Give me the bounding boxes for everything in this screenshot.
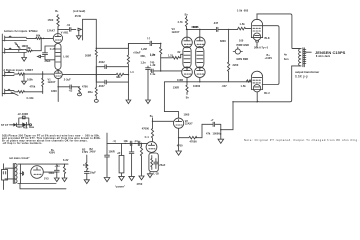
svg-text:30n 6-7y+ 0: 30n 6-7y+ 0 — [254, 46, 269, 49]
component on bracket — [23, 116, 26, 119]
jack J2 — [2, 48, 26, 53]
ground G15 — [84, 180, 89, 184]
resistor 1M diagonal — [15, 43, 20, 48]
wire B+ down to rail — [106, 133, 108, 143]
vertical x128 with resistor R9 — [127, 43, 129, 99]
cathode leads V5 — [256, 40, 259, 47]
plate stubs up — [187, 29, 200, 37]
wire node to tone — [96, 43, 128, 48]
svg-text:5Y3: 5Y3 — [44, 178, 49, 181]
ladder bottom branch cap .0047 — [96, 75, 128, 84]
primary leads — [5, 168, 15, 179]
jack J1 — [2, 36, 26, 41]
svg-text:420V: 420V — [49, 151, 55, 154]
filter cap leg 2 electrolytic — [121, 143, 123, 155]
rectifier tube V7 — [31, 166, 44, 179]
ground stub — [78, 31, 80, 36]
ground G11 — [147, 172, 152, 178]
svg-text:GRN RED: GRN RED — [236, 58, 248, 61]
wire main line y44 — [128, 42, 149, 44]
svg-text:-uF Cap is for valve numbers.: -uF Cap is for valve numbers. — [2, 142, 43, 145]
resistor R16 grid V6 — [247, 80, 252, 82]
resistor R7 — [18, 91, 25, 93]
jack J3 — [2, 71, 14, 76]
svg-text:bottom ch.1 inputs 970kHz: bottom ch.1 inputs 970kHz — [4, 30, 38, 33]
svg-text:1005: 1005 — [184, 113, 190, 116]
svg-text:PWR GND: PWR GND — [237, 44, 250, 47]
tube V2a — [174, 118, 184, 128]
svg-text:10k: 10k — [83, 164, 88, 167]
svg-text:47k 10000u: 47k 10000u — [206, 132, 222, 135]
svg-text:4n: 4n — [284, 53, 287, 56]
svg-text:68k: 68k — [36, 35, 41, 38]
volume pot VR1 — [82, 19, 84, 40]
wire nfb left — [196, 124, 202, 137]
ground G10 — [176, 151, 182, 155]
svg-text:130R: 130R — [173, 86, 179, 89]
AC plug — [2, 170, 8, 181]
resistor R6 — [18, 73, 25, 75]
capacitor C6 .047 — [216, 27, 237, 31]
node junction — [160, 43, 162, 45]
plate lead V2a — [164, 82, 178, 118]
ground G9 — [218, 130, 224, 144]
leader dash to label — [306, 51, 312, 53]
svg-text:745: 745 — [150, 62, 155, 65]
wire R1 to V1 grid — [41, 37, 54, 39]
diode D2 — [22, 122, 26, 127]
svg-text:B+: B+ — [55, 10, 59, 13]
svg-text:4700: 4700 — [82, 85, 88, 88]
resistor R14 grid V5 — [238, 27, 251, 30]
svg-text:100k: 100k — [27, 78, 33, 81]
svg-text:100R: 100R — [177, 79, 183, 82]
svg-text:245V: 245V — [90, 151, 96, 154]
wiper arrow volume pot — [78, 28, 81, 30]
screen supply loop — [262, 26, 279, 85]
ground G12 — [104, 178, 110, 182]
svg-text:C-25: C-25 — [50, 48, 56, 51]
tube V2b body capsule — [151, 151, 153, 154]
junction to lower grid — [228, 29, 229, 30]
svg-text:1-5k: 1-5k — [240, 23, 246, 26]
svg-text:1,25: 1,25 — [168, 55, 174, 58]
svg-text:10uF: 10uF — [90, 172, 96, 175]
plate lead V6 to OT bottom — [233, 66, 292, 102]
svg-text:BLK: BLK — [265, 37, 270, 40]
secondary top lead — [18, 163, 68, 165]
svg-text:-0022: -0022 — [98, 61, 105, 64]
svg-text:10k: 10k — [124, 140, 129, 143]
svg-text:470k: 470k — [30, 85, 36, 88]
svg-text:12AX7: 12AX7 — [172, 31, 180, 34]
wire speaker to NFB — [232, 101, 233, 102]
svg-text:1500: 1500 — [48, 19, 54, 22]
svg-text:-LF-400R: -LF-400R — [17, 113, 28, 116]
svg-text:680R: 680R — [192, 26, 198, 29]
svg-text:10000: 10000 — [193, 85, 201, 88]
junction dot — [160, 70, 162, 72]
svg-text:2-2uF: 2-2uF — [64, 79, 71, 82]
wire plate node to C2 — [58, 28, 69, 30]
svg-text:100: 100 — [239, 40, 244, 43]
tube V2b — [146, 142, 157, 153]
cathode lead V1a — [54, 45, 56, 46]
svg-text:-14: -14 — [134, 140, 138, 143]
tube V1b triode — [54, 70, 62, 78]
svg-text:50V: 50V — [17, 126, 22, 129]
diode D1 — [13, 123, 16, 127]
svg-text:170V: 170V — [82, 151, 88, 154]
secondary bottom — [18, 183, 56, 185]
svg-text:68k: 68k — [116, 76, 121, 79]
cathode resistor inside — [151, 156, 153, 170]
svg-text:(-): (-) — [147, 37, 150, 40]
cap C5 to ground — [146, 66, 151, 100]
wire y57.8 with resistor R12 — [161, 54, 183, 59]
svg-text:8on: 8on — [284, 58, 289, 61]
svg-text:+50uF: +50uF — [133, 51, 141, 54]
svg-text:47000: 47000 — [142, 127, 150, 130]
bypass cap C3 .02 — [58, 85, 79, 89]
svg-text:+410V: +410V — [265, 57, 273, 60]
wire y70.9 with cap — [150, 69, 181, 73]
capacitor C4 .02 — [150, 41, 161, 45]
rail wire — [107, 142, 148, 144]
ground lug — [94, 100, 98, 103]
resistor R2 — [27, 50, 33, 52]
core lamination ticks — [303, 50, 306, 64]
svg-text:C-10k: C-10k — [27, 97, 35, 100]
svg-text:40uF: 40uF — [49, 172, 55, 175]
svg-text:6-3V: 6-3V — [63, 159, 69, 162]
wire R6 to grid — [14, 73, 43, 75]
svg-text:4700: 4700 — [176, 145, 183, 148]
svg-text:B+: B+ — [186, 96, 190, 99]
svg-text:bias: bias — [29, 126, 35, 129]
resistor R8b 4700 — [79, 87, 81, 93]
resistor R13 — [185, 16, 187, 29]
wire plate to OT top — [257, 14, 300, 49]
svg-text:-02: -02 — [69, 89, 73, 92]
resistor R1 68k — [36, 37, 42, 39]
svg-text:1,3n: 1,3n — [141, 61, 147, 64]
svg-text:-047: -047 — [222, 85, 228, 88]
svg-text:B+: B+ — [150, 115, 154, 118]
resistor R10 68k — [96, 73, 128, 76]
ground G16 — [54, 178, 59, 182]
jack J4 — [2, 89, 14, 94]
svg-text:6800: 6800 — [220, 40, 226, 43]
filter leg 3 — [129, 143, 134, 176]
wire pot top to node — [83, 19, 97, 48]
filter cap C9 — [54, 166, 59, 178]
svg-text:200R: 200R — [85, 54, 91, 57]
resistor R18 — [151, 118, 153, 142]
svg-text:L-35: L-35 — [154, 173, 160, 176]
plate lead V5 — [256, 14, 258, 20]
resistor R5 divider chain — [95, 48, 97, 99]
wire rail y29 — [187, 28, 216, 30]
tube V6 — [251, 71, 262, 89]
svg-text:1-5k -005: 1-5k -005 — [237, 9, 249, 12]
svg-text:(coil lead): (coil lead) — [73, 10, 85, 13]
resistor R21 — [63, 165, 65, 178]
chassis ground line — [1, 34, 3, 96]
wire top secondary to cap — [57, 164, 65, 165]
svg-text:68k: 68k — [27, 47, 32, 50]
wire J1 to R1 — [26, 37, 35, 39]
svg-text:40u: 40u — [23, 126, 28, 129]
wire bias — [10, 118, 30, 125]
svg-text:680,: 680, — [141, 55, 146, 58]
resistor R15 130R — [186, 82, 188, 95]
svg-text:-1): -1) — [113, 140, 116, 143]
svg-text:25-W: 25-W — [75, 15, 82, 18]
wire J2 junction — [23, 53, 25, 58]
svg-text:25uF: 25uF — [159, 164, 165, 167]
cathode stubs down — [187, 78, 200, 82]
svg-text:Note: Original PT replaced. Ou: Note: Original PT replaced. Output Tx ch… — [244, 138, 359, 142]
plate stub V1b — [57, 69, 59, 71]
svg-text:ST CT: ST CT — [1, 124, 9, 127]
svg-text:L-5K: L-5K — [63, 56, 69, 59]
tube V1 body capsule — [55, 43, 61, 69]
svg-text:-047: -047 — [213, 22, 219, 25]
filter leg 4 resistor R22 — [140, 143, 142, 175]
cathode bus y81.8 — [164, 81, 246, 83]
cathode wire — [43, 171, 57, 173]
terminal circle — [30, 124, 32, 126]
resistor R17 47000 — [179, 136, 197, 139]
ground lug G4 — [78, 93, 82, 96]
svg-text:1-5k: 1-5k — [241, 85, 247, 88]
svg-text:2200: 2200 — [233, 64, 239, 67]
svg-text:47000: 47000 — [190, 140, 198, 143]
ground G3 — [22, 75, 27, 85]
svg-text:100R: 100R — [109, 150, 115, 153]
svg-text:+R: +R — [117, 152, 121, 155]
wire R7 to bus — [14, 91, 43, 93]
pot P2 — [235, 49, 240, 54]
vertical x160 resistor R11 — [160, 43, 162, 71]
svg-text:1,2M: 1,2M — [141, 48, 147, 51]
filter cap leg 1 — [105, 143, 110, 177]
svg-text:12AX7: 12AX7 — [47, 30, 55, 33]
svg-text:“power”: “power” — [115, 186, 126, 189]
svg-text:4-7k: 4-7k — [178, 21, 184, 24]
svg-text:+ 5v: + 5v — [55, 165, 61, 168]
capacitor C2 .02 — [69, 28, 75, 32]
ground G5 — [126, 100, 131, 104]
ground G13 — [119, 176, 125, 180]
svg-text:1,25: 1,25 — [150, 54, 156, 57]
junction — [20, 173, 21, 174]
ground G6 — [146, 100, 151, 104]
switch contact S2 — [11, 92, 18, 95]
resistor R20 10k — [84, 155, 89, 179]
AC line — [3, 164, 5, 190]
grid V2a from B+ node — [153, 120, 174, 122]
plate lead V1b right — [62, 74, 96, 76]
ground G14 — [129, 176, 135, 180]
svg-text:12AX7: 12AX7 — [185, 122, 193, 125]
ground G17 — [62, 178, 67, 182]
tube V3 column — [182, 37, 193, 48]
tube V5 — [251, 19, 262, 37]
tube V1a triode — [53, 34, 62, 43]
plate lead V1a — [57, 29, 59, 33]
svg-text:not main circuit”: not main circuit” — [9, 157, 30, 160]
svg-text:V AB1: V AB1 — [61, 32, 69, 35]
ground G18 — [139, 176, 144, 180]
svg-text:4700: 4700 — [137, 183, 143, 186]
svg-text:1800: 1800 — [51, 90, 57, 93]
wire vertical x228 with resistor — [228, 29, 230, 81]
grid lead V1b — [43, 73, 54, 75]
svg-text:BLU: BLU — [264, 92, 269, 95]
svg-text:2Bu: 2Bu — [88, 91, 93, 94]
ladder top branch cap .0022 — [96, 65, 128, 75]
svg-text:1-4u: 1-4u — [150, 73, 156, 76]
svg-text:12AX7: 12AX7 — [48, 81, 56, 84]
wire grid bus vertical with resistor — [42, 72, 44, 94]
dropper caps on rail — [130, 141, 140, 145]
resistor R8 below cathode — [57, 87, 59, 102]
svg-text:8 ohm Jack: 8 ohm Jack — [316, 55, 331, 58]
bottom return wire — [20, 184, 66, 189]
primary coil — [292, 49, 300, 66]
power transformer T2 — [13, 163, 14, 183]
svg-text:-0047: -0047 — [98, 85, 105, 88]
svg-text:.01: .01 — [66, 24, 71, 27]
heater D shape — [20, 172, 23, 176]
ground G2 — [76, 36, 81, 40]
ground G1 — [22, 58, 27, 62]
svg-text:C-1: C-1 — [145, 136, 150, 139]
tube V4 column — [195, 37, 206, 48]
cathode V1b — [57, 79, 59, 86]
svg-text:25uF: 25uF — [45, 60, 51, 63]
ground arrow A1 — [38, 55, 45, 57]
resistor R4 plate load — [57, 15, 59, 30]
wire R2 to grid bus — [32, 38, 42, 50]
bypass cap C8 — [154, 159, 158, 169]
cathode V2a — [178, 128, 180, 150]
cap C7 — [202, 122, 221, 130]
cathode network R3 C1 — [54, 45, 55, 46]
svg-text:6.6K p-p: 6.6K p-p — [295, 74, 308, 78]
